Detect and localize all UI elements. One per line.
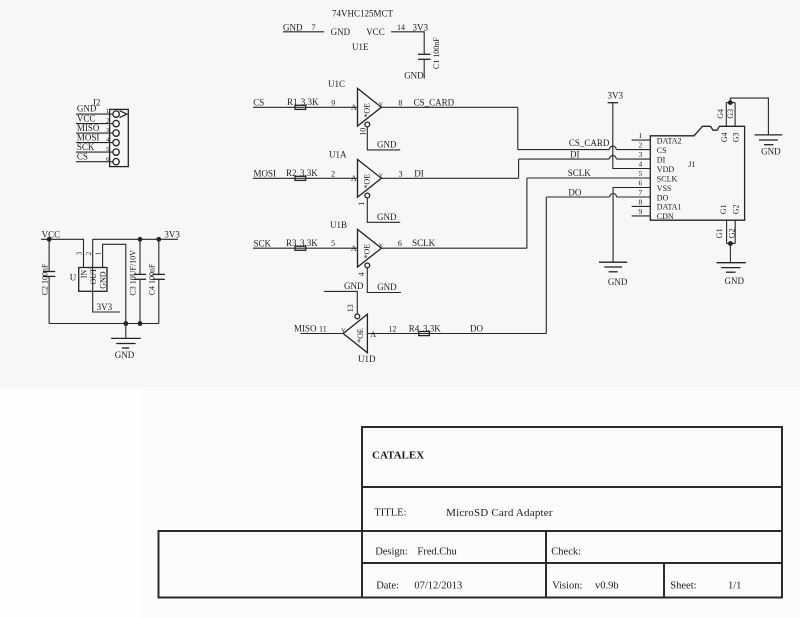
- title block outer left rectangle: [159, 531, 363, 598]
- svg-text:3: 3: [639, 150, 643, 159]
- svg-text:A: A: [351, 244, 357, 253]
- svg-text:DATA1: DATA1: [657, 203, 682, 212]
- ground bottom J1: [717, 262, 746, 264]
- svg-text:VDD: VDD: [657, 165, 675, 174]
- junction G1 G2 bottom: [728, 241, 733, 246]
- connector J1 microSD socket body: [650, 126, 744, 220]
- wire CS_CARD to J1 pin2: [518, 149, 650, 151]
- svg-text:GND: GND: [725, 276, 745, 286]
- wire DO up to J1 row: [545, 197, 547, 334]
- resistor R4: [419, 332, 430, 336]
- junction G4 G3 top: [728, 100, 733, 105]
- title block row divider 3: [362, 562, 782, 564]
- svg-text:CS: CS: [77, 152, 88, 162]
- regulator U body: [79, 268, 107, 292]
- wire CS input to U1C: [253, 106, 358, 108]
- pin OE bubble U1C: [365, 122, 370, 127]
- svg-text:7: 7: [312, 23, 316, 32]
- svg-text:G3: G3: [732, 133, 741, 143]
- svg-text:VCC: VCC: [366, 27, 385, 37]
- svg-text:GND: GND: [761, 147, 781, 157]
- svg-text:VCC: VCC: [77, 114, 96, 124]
- svg-text:74VHC125MCT: 74VHC125MCT: [332, 9, 394, 19]
- wire regulator GND pin to ground bus: [103, 244, 126, 323]
- op-amp U1B buffer triangle: [358, 229, 382, 267]
- svg-text:U1E: U1E: [352, 42, 369, 52]
- wire hop CS_CARD over 3V3: [609, 146, 616, 149]
- title block column divider design/check: [545, 531, 547, 598]
- capacitor C3: [139, 239, 141, 274]
- wire C1 bottom to GND: [423, 59, 425, 78]
- wire joining G1 G2 bottoms: [727, 243, 736, 245]
- svg-text:3: 3: [399, 169, 403, 178]
- pin 1 stub J1: [632, 139, 650, 141]
- svg-text:U: U: [70, 272, 77, 282]
- svg-text:DATA2: DATA2: [657, 136, 682, 145]
- ground bottom left: [111, 337, 141, 339]
- svg-text:9: 9: [331, 98, 335, 107]
- junction VCC rail C2: [47, 237, 52, 242]
- svg-text:C3 10UF/10V: C3 10UF/10V: [128, 250, 137, 296]
- junction bus regulator GND: [123, 321, 128, 326]
- svg-text:Vision:: Vision:: [552, 581, 582, 592]
- wire U1D input DO: [367, 333, 546, 335]
- svg-text:1: 1: [106, 108, 109, 115]
- svg-text:J1: J1: [688, 160, 695, 169]
- svg-text:3.3K: 3.3K: [423, 324, 441, 334]
- svg-text:Y: Y: [341, 327, 346, 334]
- svg-text:CS: CS: [657, 146, 667, 155]
- svg-text:2: 2: [85, 251, 93, 255]
- pin 3 circle J2: [113, 130, 119, 136]
- wire U1B output SCLK: [381, 247, 527, 249]
- svg-text:G4: G4: [720, 133, 729, 143]
- svg-text:5: 5: [331, 239, 335, 248]
- svg-text:C1 100nF: C1 100nF: [432, 37, 441, 69]
- svg-text:1: 1: [357, 202, 366, 206]
- svg-text:2: 2: [106, 118, 109, 125]
- pin 2 circle J2: [113, 120, 119, 126]
- svg-text:GND: GND: [283, 22, 303, 32]
- wire regulator OUT through-line to 3V3 label: [93, 239, 120, 312]
- wire MOSI input to U1A: [253, 177, 358, 179]
- wire DO to J1 pin7: [546, 196, 650, 198]
- svg-text:3: 3: [106, 127, 109, 134]
- svg-text:8: 8: [398, 98, 402, 107]
- svg-text:Fred.Chu: Fred.Chu: [417, 547, 457, 558]
- svg-text:3: 3: [76, 251, 84, 255]
- svg-text:Sheet:: Sheet:: [670, 581, 696, 592]
- wire 3V3 down to J1 VDD pin4: [613, 103, 650, 169]
- wire U1C output CS_CARD: [381, 106, 517, 108]
- wire SCLK up to J1 row: [526, 178, 528, 248]
- wire J2 pin1: [76, 113, 113, 115]
- svg-text:Design:: Design:: [375, 547, 408, 558]
- svg-text:A: A: [370, 330, 376, 339]
- svg-text:Check:: Check:: [551, 547, 581, 558]
- svg-text:DO: DO: [470, 323, 483, 333]
- svg-text:G2: G2: [727, 228, 736, 238]
- svg-text:13: 13: [346, 304, 355, 312]
- svg-text:IN: IN: [79, 270, 88, 279]
- svg-text:2: 2: [331, 169, 335, 178]
- svg-text:CS: CS: [253, 97, 264, 107]
- pin 9 stub J1: [632, 215, 650, 217]
- svg-text:GND: GND: [77, 104, 97, 114]
- wire GND to U1E pin7: [283, 31, 324, 33]
- pin 8 stub J1: [632, 205, 650, 207]
- svg-text:14: 14: [397, 23, 405, 32]
- svg-text:6: 6: [398, 239, 402, 248]
- wire J1 VSS pin6 to ground: [613, 188, 650, 263]
- svg-text:CS_CARD: CS_CARD: [569, 138, 610, 148]
- svg-text:TITLE:: TITLE:: [374, 507, 406, 518]
- wire shield bottom to ground: [729, 244, 731, 263]
- wire J2 pin6: [76, 161, 113, 163]
- wire U1E pin14 to 3V3: [391, 32, 424, 55]
- svg-text:A: A: [351, 174, 357, 183]
- svg-text:1: 1: [94, 251, 102, 255]
- resistor R1: [295, 105, 306, 109]
- svg-text:*OE: *OE: [356, 328, 365, 343]
- pin 6 circle J2: [113, 159, 119, 165]
- title block main box: [362, 427, 782, 598]
- title block row divider 2: [362, 530, 782, 532]
- svg-text:SCLK: SCLK: [657, 174, 678, 183]
- svg-text:5: 5: [106, 146, 109, 153]
- svg-text:GND: GND: [115, 350, 135, 360]
- pin G4 stub top J1: [725, 103, 727, 127]
- svg-text:10: 10: [358, 128, 367, 136]
- wire CS_CARD down to J1 row: [517, 107, 519, 149]
- junction bus C3: [138, 321, 143, 326]
- wire J2 pin5: [76, 151, 113, 153]
- svg-text:1/1: 1/1: [728, 581, 741, 592]
- wire VCC rail to regulator IN: [41, 239, 84, 267]
- svg-text:U1C: U1C: [328, 79, 345, 89]
- ground top right: [755, 134, 783, 136]
- svg-text:MISO: MISO: [294, 323, 317, 333]
- svg-text:3V3: 3V3: [164, 229, 180, 239]
- svg-text:7: 7: [639, 188, 643, 197]
- wire DI to J1 pin3: [519, 158, 650, 160]
- svg-text:*OE: *OE: [363, 244, 372, 259]
- svg-text:07/12/2013: 07/12/2013: [414, 581, 462, 592]
- svg-text:U1D: U1D: [358, 354, 376, 364]
- svg-text:*OE: *OE: [363, 103, 372, 118]
- svg-text:1: 1: [639, 131, 643, 140]
- wire hop DI over 3V3: [609, 156, 616, 160]
- wire J2 pin3: [76, 132, 113, 134]
- wire hop DO over VSS: [610, 194, 617, 197]
- svg-text:9: 9: [639, 207, 643, 216]
- wire U1A OE to GND: [367, 198, 400, 222]
- junction 3V3 rail C4: [156, 237, 161, 242]
- svg-text:*OE: *OE: [363, 174, 372, 189]
- capacitor C2: [48, 239, 50, 271]
- resistor R2: [295, 176, 306, 180]
- svg-text:v0.9b: v0.9b: [595, 581, 619, 592]
- svg-text:SCLK: SCLK: [568, 168, 592, 178]
- junction 3V3 rail C3: [138, 237, 143, 242]
- svg-text:U1A: U1A: [329, 149, 347, 159]
- svg-text:CATALEX: CATALEX: [372, 450, 424, 462]
- wire U1B OE to GND: [367, 268, 401, 292]
- wire J2 pin2: [76, 123, 113, 125]
- wire J2 pin4: [76, 142, 113, 144]
- svg-text:MOSI: MOSI: [254, 168, 277, 178]
- svg-text:GND: GND: [608, 277, 628, 287]
- pin G2 stub bottom J1: [734, 220, 736, 243]
- svg-text:GND: GND: [404, 70, 424, 80]
- pin G1 stub bottom J1: [726, 220, 728, 243]
- svg-text:11: 11: [319, 324, 327, 333]
- svg-text:G1: G1: [719, 204, 728, 214]
- resistor R3: [295, 246, 306, 250]
- ground VSS: [599, 261, 627, 263]
- wire DI up to J1 row: [518, 159, 520, 178]
- svg-text:GND: GND: [331, 27, 351, 37]
- svg-text:U1B: U1B: [330, 220, 347, 230]
- capacitor C1: [418, 53, 431, 55]
- wire SCLK to J1 pin5: [527, 177, 650, 179]
- wire U1A output DI: [381, 177, 518, 179]
- wire SCK input to U1B: [253, 247, 358, 249]
- svg-text:12: 12: [389, 325, 397, 334]
- svg-text:GND: GND: [377, 282, 397, 292]
- pin 1 arrow J2: [120, 111, 127, 118]
- svg-text:8: 8: [639, 197, 643, 206]
- svg-text:G2: G2: [732, 204, 741, 214]
- op-amp U1D buffer triangle: [343, 314, 367, 353]
- svg-text:VSS: VSS: [657, 184, 672, 193]
- svg-text:A: A: [351, 103, 357, 112]
- op-amp U1A buffer triangle: [358, 160, 382, 198]
- svg-text:G4: G4: [716, 109, 725, 119]
- svg-text:DI: DI: [657, 155, 666, 164]
- wire 3V3 rail: [93, 238, 178, 240]
- svg-text:SCK: SCK: [77, 142, 95, 152]
- svg-text:Date:: Date:: [376, 581, 399, 592]
- svg-text:SCK: SCK: [254, 238, 272, 248]
- svg-text:G1: G1: [715, 228, 724, 238]
- pin G3 stub top J1: [734, 103, 736, 127]
- wire MISO from U1D output: [301, 333, 344, 335]
- wire U1C OE to GND: [367, 127, 400, 150]
- wire U1D OE to GND: [324, 291, 357, 313]
- svg-text:C4 100nF: C4 100nF: [147, 263, 156, 295]
- title block row divider 1: [362, 486, 782, 488]
- svg-text:2: 2: [639, 141, 643, 150]
- svg-text:5: 5: [639, 169, 643, 178]
- svg-text:DO: DO: [568, 188, 581, 198]
- svg-text:CS_CARD: CS_CARD: [414, 97, 455, 107]
- svg-text:C2 100nF: C2 100nF: [40, 263, 49, 295]
- svg-text:GND: GND: [377, 140, 397, 150]
- pin OE bubble U1B: [365, 263, 370, 268]
- pin OE bubble U1A: [365, 193, 370, 198]
- wire shield top to ground: [730, 98, 768, 135]
- pin 5 circle J2: [113, 149, 119, 155]
- svg-text:4: 4: [639, 159, 643, 168]
- svg-text:3V3: 3V3: [413, 22, 429, 32]
- wire bus to ground symbol: [125, 324, 127, 339]
- svg-text:SCLK: SCLK: [412, 238, 436, 248]
- svg-text:GND: GND: [344, 281, 364, 291]
- svg-text:DI: DI: [570, 150, 580, 160]
- connector J2 body: [110, 109, 129, 166]
- pin OE bubble U1D: [355, 314, 360, 319]
- svg-text:GND: GND: [377, 212, 397, 222]
- svg-text:DO: DO: [657, 193, 669, 202]
- svg-text:G3: G3: [726, 109, 735, 119]
- svg-text:6: 6: [639, 178, 643, 187]
- svg-text:GND: GND: [99, 271, 108, 289]
- title block column divider sheet: [663, 563, 665, 598]
- svg-text:4: 4: [357, 272, 366, 276]
- svg-text:DI: DI: [414, 168, 424, 178]
- svg-text:OUT: OUT: [89, 268, 98, 285]
- svg-text:MicroSD Card Adapter: MicroSD Card Adapter: [446, 507, 553, 519]
- svg-text:3V3: 3V3: [97, 302, 113, 312]
- op-amp U1C buffer triangle: [358, 88, 382, 126]
- svg-text:3V3: 3V3: [608, 90, 624, 100]
- wire joining G4 G3 tops: [726, 102, 735, 104]
- wire ground bus: [49, 323, 159, 325]
- svg-text:CDN: CDN: [657, 212, 674, 221]
- capacitor C4: [158, 239, 160, 274]
- pin 4 circle J2: [113, 139, 119, 145]
- pin 1 circle J2: [113, 111, 119, 117]
